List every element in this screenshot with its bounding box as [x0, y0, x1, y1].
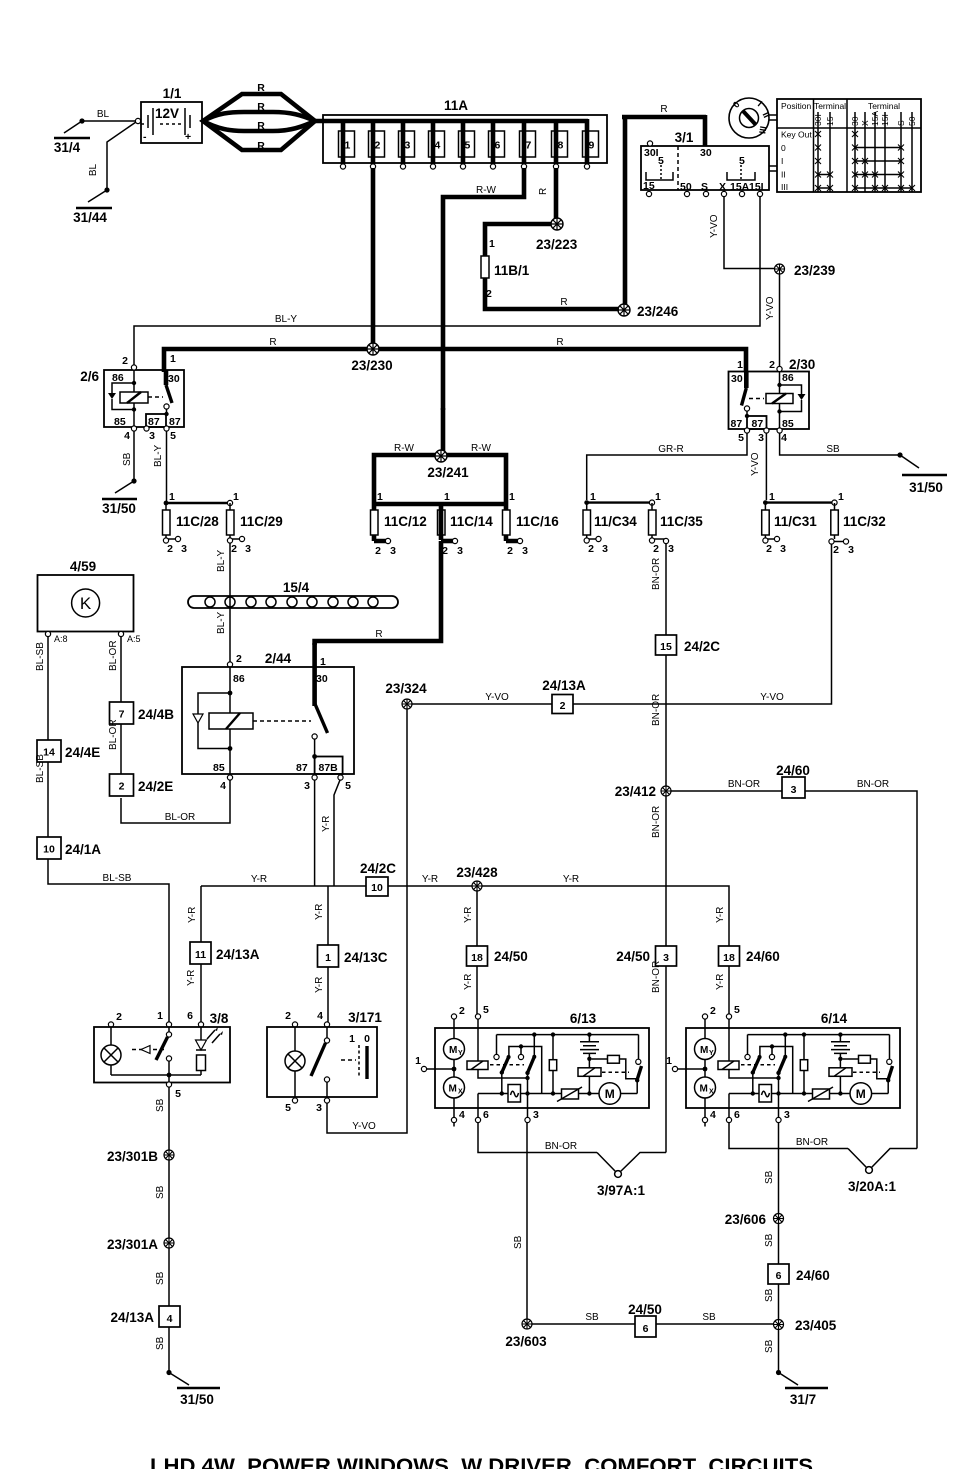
- wire GR-R 2/30 pin 5 to 11/C34: [587, 433, 747, 500]
- svg-text:2: 2: [167, 543, 173, 555]
- svg-text:24/13A: 24/13A: [110, 1310, 154, 1325]
- svg-text:R-W: R-W: [476, 185, 497, 196]
- wire Y-VO 23/324 down to 3/171: [327, 709, 407, 1133]
- svg-text:2/44: 2/44: [265, 651, 292, 666]
- wire Y-R box 1 to 3/171 pin 4: [327, 967, 329, 1022]
- svg-text:GR-R: GR-R: [658, 444, 684, 455]
- svg-text:Y-R: Y-R: [251, 874, 267, 885]
- svg-text:6: 6: [643, 1323, 649, 1335]
- svg-text:BL-SB: BL-SB: [35, 754, 46, 783]
- svg-text:2: 2: [375, 140, 381, 152]
- svg-text:31/50: 31/50: [102, 501, 136, 516]
- svg-text:R: R: [556, 337, 563, 348]
- svg-text:SB: SB: [585, 1312, 599, 1323]
- svg-text:Y-VO: Y-VO: [485, 692, 509, 703]
- svg-text:Y-VO: Y-VO: [709, 214, 720, 238]
- wire BN-OR 6/13 pin 6 to splice: [478, 1123, 597, 1153]
- wire Y-R 23/428 down to 6/13: [476, 891, 478, 946]
- svg-text:11C/32: 11C/32: [843, 514, 886, 529]
- svg-text:3: 3: [602, 543, 608, 555]
- svg-text:BL-Y: BL-Y: [153, 444, 164, 467]
- svg-text:24/2E: 24/2E: [138, 779, 173, 794]
- svg-text:1: 1: [737, 359, 743, 371]
- svg-text:11A: 11A: [444, 98, 468, 113]
- svg-text:0: 0: [781, 143, 786, 153]
- svg-text:10: 10: [371, 882, 383, 894]
- svg-text:Y-R: Y-R: [422, 874, 438, 885]
- svg-text:24/2C: 24/2C: [360, 861, 396, 876]
- svg-text:31/50: 31/50: [909, 480, 943, 495]
- svg-text:12V: 12V: [155, 106, 179, 121]
- junction 23/405: [774, 1320, 784, 1330]
- svg-text:1: 1: [838, 491, 844, 503]
- splice 3/97A:1: [597, 1153, 666, 1199]
- svg-text:1: 1: [769, 491, 775, 503]
- wire Y-R 2/44 pin 3 down: [314, 780, 316, 886]
- svg-text:6: 6: [187, 1010, 193, 1022]
- svg-text:18: 18: [723, 952, 735, 964]
- junction 23/603: [522, 1319, 532, 1329]
- svg-text:2: 2: [236, 653, 242, 665]
- svg-text:24/4B: 24/4B: [138, 707, 174, 722]
- wire R-W fuse 7 to 23/241 riser: [443, 168, 524, 410]
- svg-text:3: 3: [791, 784, 797, 796]
- svg-text:4: 4: [435, 140, 441, 152]
- svg-text:Y-VO: Y-VO: [750, 452, 761, 476]
- svg-text:BN-OR: BN-OR: [651, 806, 662, 838]
- svg-text:2/30: 2/30: [789, 357, 815, 372]
- svg-text:15I: 15I: [880, 114, 890, 126]
- wire R main bus to relays: [164, 349, 746, 372]
- svg-text:4: 4: [220, 780, 226, 792]
- fuse 1: [339, 119, 355, 169]
- svg-text:Y-R: Y-R: [463, 974, 474, 990]
- connector 11C/32: [829, 491, 886, 556]
- fuse box 11A: [315, 98, 607, 163]
- svg-text:A:8: A:8: [54, 634, 68, 644]
- svg-text:86: 86: [782, 372, 794, 384]
- svg-text:15: 15: [643, 180, 655, 192]
- svg-text:31/50: 31/50: [180, 1392, 214, 1407]
- svg-text:18: 18: [471, 952, 483, 964]
- svg-text:23/428: 23/428: [456, 865, 498, 880]
- svg-text:6: 6: [495, 140, 501, 152]
- svg-text:1: 1: [345, 140, 351, 152]
- svg-text:2: 2: [588, 543, 594, 555]
- svg-text:30: 30: [850, 116, 860, 126]
- svg-text:X: X: [860, 120, 870, 126]
- svg-text:R-W: R-W: [471, 443, 492, 454]
- svg-text:24/60: 24/60: [796, 1268, 830, 1283]
- wire SB 23/405 to ground: [778, 1330, 780, 1372]
- svg-text:23/223: 23/223: [536, 237, 578, 252]
- svg-text:85: 85: [114, 416, 126, 428]
- svg-text:23/301B: 23/301B: [107, 1149, 158, 1164]
- junction 23/230: [367, 343, 379, 355]
- svg-text:Y-R: Y-R: [186, 970, 197, 986]
- svg-text:23/241: 23/241: [427, 465, 469, 480]
- svg-text:15A: 15A: [870, 111, 880, 126]
- instrument 4/59: [38, 559, 141, 644]
- ground 31/50 bottom: [166, 1370, 220, 1407]
- svg-text:23/603: 23/603: [505, 1334, 547, 1349]
- svg-text:I: I: [781, 156, 783, 166]
- svg-text:Key Out: Key Out: [781, 130, 812, 140]
- wire BL-OR box 7 to box 2: [120, 724, 122, 774]
- connector box 2 24/2E: [110, 774, 174, 796]
- svg-text:24/50: 24/50: [616, 949, 650, 964]
- wire Y-VO 23/324 to 24/13A box 2: [412, 703, 552, 705]
- junction 23/428: [472, 881, 482, 891]
- connector box 14 24/4E: [37, 740, 100, 762]
- svg-text:III: III: [781, 182, 788, 192]
- svg-text:BL-OR: BL-OR: [165, 812, 196, 823]
- svg-text:7: 7: [526, 140, 532, 152]
- svg-text:Terminal: Terminal: [868, 101, 900, 111]
- ground 31/44: [73, 118, 140, 225]
- svg-text:23/324: 23/324: [385, 681, 427, 696]
- svg-text:23/230: 23/230: [351, 358, 392, 373]
- junction 23/301A: [164, 1238, 174, 1248]
- svg-text:23/606: 23/606: [725, 1212, 767, 1227]
- relay 2/44 coil: [229, 667, 231, 775]
- fuse 9: [583, 119, 599, 169]
- relay 2/44 switch: [315, 703, 328, 733]
- relay 2/30 switch: [744, 372, 749, 389]
- svg-text:BN-OR: BN-OR: [545, 1141, 577, 1152]
- wire Y-R box 18 to 6/13 pin 5: [476, 966, 478, 1014]
- svg-text:87: 87: [148, 416, 160, 428]
- svg-text:24/2C: 24/2C: [684, 639, 720, 654]
- svg-text:SB: SB: [155, 1098, 166, 1112]
- svg-text:BL-Y: BL-Y: [216, 549, 227, 572]
- svg-text:BL-Y: BL-Y: [275, 314, 298, 325]
- svg-text:2: 2: [560, 700, 566, 712]
- connector box 6 24/60: [768, 1264, 830, 1284]
- svg-text:85: 85: [782, 418, 794, 430]
- svg-text:2: 2: [507, 545, 513, 557]
- svg-text:R: R: [257, 82, 265, 94]
- svg-text:3: 3: [457, 545, 463, 557]
- relay 2/30 coil: [779, 372, 781, 429]
- svg-text:Y-R: Y-R: [715, 907, 726, 923]
- svg-text:R: R: [538, 188, 549, 195]
- connector box 1 24/13C: [318, 945, 388, 967]
- svg-text:3: 3: [848, 544, 854, 556]
- svg-text:2: 2: [833, 544, 839, 556]
- svg-text:11/C34: 11/C34: [594, 514, 637, 529]
- relay 2/44: [182, 651, 354, 792]
- svg-text:15A: 15A: [730, 181, 750, 193]
- svg-text:87: 87: [731, 418, 743, 430]
- svg-text:5: 5: [175, 1088, 181, 1100]
- svg-text:3/97A:1: 3/97A:1: [597, 1183, 646, 1198]
- ground 31/50 right: [897, 452, 947, 495]
- svg-text:Y-VO: Y-VO: [765, 296, 776, 320]
- svg-text:Y-R: Y-R: [187, 907, 198, 923]
- svg-text:SB: SB: [513, 1235, 524, 1249]
- 3/8 lamp: [110, 1027, 112, 1075]
- svg-text:24/13A: 24/13A: [216, 947, 260, 962]
- svg-text:23/412: 23/412: [615, 784, 656, 799]
- svg-text:50: 50: [907, 116, 917, 126]
- svg-text:R: R: [560, 297, 567, 308]
- svg-text:BL-SB: BL-SB: [35, 642, 46, 671]
- wire BL-Y 2/6 pin 5 to 11C/28: [166, 431, 168, 501]
- svg-text:1: 1: [157, 1010, 163, 1022]
- svg-text:K: K: [80, 594, 92, 613]
- svg-text:A:5: A:5: [127, 634, 141, 644]
- svg-text:Position: Position: [781, 101, 812, 111]
- svg-text:Y-R: Y-R: [321, 816, 332, 832]
- wire R fuse bus to ignition switch 3/1: [622, 115, 706, 307]
- svg-text:30: 30: [700, 147, 712, 159]
- svg-text:30: 30: [168, 373, 180, 385]
- svg-text:7: 7: [119, 709, 125, 721]
- connector 11C/14: [438, 491, 494, 557]
- svg-text:24/50: 24/50: [494, 949, 528, 964]
- svg-text:2: 2: [653, 543, 659, 555]
- svg-text:2: 2: [116, 1011, 122, 1023]
- svg-text:5: 5: [738, 432, 744, 444]
- connector box 3 24/60: [776, 763, 810, 798]
- wire Y-R to 24/13C box 1: [327, 886, 329, 945]
- svg-text:5: 5: [285, 1102, 291, 1114]
- junction 23/246: [618, 304, 630, 316]
- wire Y-VO 2/30 pin 3 to 11/C31: [765, 433, 767, 500]
- wire SB to box 4: [168, 1248, 170, 1306]
- wire Y-VO 23/239 to relay 2/30 pin 2: [779, 274, 781, 366]
- svg-text:85: 85: [213, 762, 225, 774]
- svg-text:10: 10: [43, 844, 55, 856]
- wire R fuse 2 down to bus: [371, 168, 376, 347]
- svg-text:1/1: 1/1: [163, 86, 182, 101]
- svg-text:31/7: 31/7: [790, 1392, 816, 1407]
- wire SB box 6 to 23/405: [778, 1284, 780, 1320]
- svg-text:BN-OR: BN-OR: [651, 694, 662, 726]
- fuse 6: [489, 119, 505, 169]
- svg-text:3: 3: [304, 780, 310, 792]
- svg-text:BN-OR: BN-OR: [651, 558, 662, 590]
- relay 2/44 diode: [198, 693, 230, 749]
- junction 23/412: [661, 786, 671, 796]
- wire BN-OR 6/14 pin 6 to splice: [729, 1123, 848, 1149]
- svg-text:3/20A:1: 3/20A:1: [848, 1179, 897, 1194]
- svg-text:R-W: R-W: [394, 443, 415, 454]
- wire R harness lens battery to fusebox: [203, 82, 315, 152]
- svg-text:86: 86: [112, 372, 124, 384]
- svg-text:11C/14: 11C/14: [450, 514, 493, 529]
- fuse 3: [399, 119, 415, 169]
- svg-text:1: 1: [655, 491, 661, 503]
- svg-text:24/4E: 24/4E: [65, 745, 100, 760]
- svg-text:R: R: [257, 120, 265, 132]
- relay 2/6 switch: [164, 370, 169, 385]
- svg-text:30: 30: [316, 673, 328, 685]
- wire SB 23/606 to box 6: [778, 1224, 780, 1265]
- wire SB 6/13 pin 3 to 23/603: [526, 1123, 528, 1320]
- ground 31/50 left: [102, 478, 137, 516]
- wire Y-R 24/2C to 23/428 to 6/14: [388, 886, 729, 946]
- svg-text:23/246: 23/246: [637, 304, 679, 319]
- svg-text:SB: SB: [764, 1170, 775, 1184]
- fuse 8: [552, 119, 568, 169]
- svg-text:Y-R: Y-R: [314, 977, 325, 993]
- battery 1/1: [141, 86, 202, 143]
- switch 3/171: [267, 1010, 382, 1114]
- fuse 5: [459, 119, 475, 169]
- relay 2/6 coil: [133, 370, 135, 426]
- svg-text:5: 5: [465, 140, 471, 152]
- wire BL-SB 4/59 A:8 down: [47, 637, 49, 741]
- connector box 10 24/1A: [37, 837, 101, 859]
- svg-text:2/6: 2/6: [80, 369, 99, 384]
- wire Y-VO box 2 to 11C/32: [573, 544, 832, 704]
- ring connector 15/4: [188, 580, 398, 608]
- connector box 6 24/50: [628, 1302, 662, 1337]
- wire Y-R horizontal to 24/2C: [201, 885, 366, 887]
- svg-text:30I: 30I: [813, 114, 823, 126]
- svg-text:15: 15: [660, 641, 672, 653]
- svg-text:9: 9: [589, 140, 595, 152]
- svg-text:-: -: [143, 131, 147, 143]
- wire BN-OR box 15 to 23/412: [665, 655, 667, 786]
- wire R 11C/14 to relay 2/44: [315, 541, 441, 645]
- wire Y-VO ignition X terminal to 23/239: [724, 196, 774, 269]
- svg-text:2: 2: [231, 543, 237, 555]
- svg-text:3/1: 3/1: [675, 130, 694, 145]
- junction 23/301B: [164, 1150, 174, 1160]
- svg-text:4: 4: [317, 1010, 323, 1022]
- svg-text:6/14: 6/14: [821, 1011, 848, 1026]
- junction 23/223: [551, 218, 563, 230]
- svg-text:BL-OR: BL-OR: [108, 719, 119, 750]
- svg-text:11/C31: 11/C31: [774, 514, 817, 529]
- wire BN-OR 23/412 to right: [671, 791, 917, 1149]
- svg-text:4: 4: [167, 1313, 173, 1325]
- svg-text:BL-OR: BL-OR: [108, 640, 119, 671]
- svg-text:1: 1: [509, 491, 515, 503]
- svg-text:SB: SB: [122, 452, 133, 466]
- svg-text:SB: SB: [702, 1312, 716, 1323]
- svg-text:2: 2: [769, 359, 775, 371]
- svg-text:SB: SB: [155, 1185, 166, 1199]
- wire SB to 23/301A: [168, 1160, 170, 1238]
- wire BN-OR box 3 to splice: [665, 966, 667, 1153]
- svg-text:3: 3: [758, 432, 764, 444]
- fuse 4: [429, 119, 445, 169]
- svg-text:87B: 87B: [319, 762, 339, 774]
- svg-text:2: 2: [285, 1010, 291, 1022]
- connector 11/C31: [762, 491, 835, 555]
- 3/8 switch contact: [168, 1027, 170, 1032]
- svg-text:2: 2: [486, 288, 492, 300]
- connector 11B/1: [481, 238, 530, 300]
- svg-text:23/405: 23/405: [795, 1318, 837, 1333]
- svg-text:31/44: 31/44: [73, 210, 107, 225]
- svg-text:Y-R: Y-R: [314, 904, 325, 920]
- wire BN-OR 23/412 down: [665, 796, 667, 946]
- svg-text:Y-R: Y-R: [463, 907, 474, 923]
- svg-text:11C/35: 11C/35: [660, 514, 703, 529]
- connector bar 11C/12 11C/14 11C/16: [372, 502, 508, 507]
- svg-text:3: 3: [390, 545, 396, 557]
- connector 11/C34: [583, 491, 652, 555]
- svg-text:3: 3: [522, 545, 528, 557]
- svg-text:11B/1: 11B/1: [494, 263, 530, 278]
- connector box 7 24/4B: [110, 702, 175, 724]
- wire Y-R 2/44 pin 5 down: [334, 780, 340, 886]
- svg-text:4: 4: [124, 430, 130, 442]
- svg-text:3: 3: [245, 543, 251, 555]
- svg-text:BN-OR: BN-OR: [728, 779, 760, 790]
- svg-text:Terminal: Terminal: [814, 101, 846, 111]
- svg-text:BL: BL: [97, 109, 110, 120]
- svg-text:3: 3: [668, 543, 674, 555]
- svg-text:15/4: 15/4: [283, 580, 310, 595]
- wire BL battery to ground: [82, 120, 136, 122]
- svg-text:R: R: [257, 101, 265, 113]
- svg-text:11C/12: 11C/12: [384, 514, 427, 529]
- svg-text:11C/28: 11C/28: [176, 514, 219, 529]
- junction 23/239: [775, 264, 785, 274]
- junction 23/324: [402, 699, 412, 709]
- svg-text:S: S: [896, 120, 906, 126]
- svg-text:3: 3: [663, 952, 669, 964]
- svg-text:R: R: [375, 629, 382, 640]
- wire SB 2/6 pin 4 to ground: [133, 431, 135, 480]
- svg-text:0: 0: [364, 1033, 370, 1045]
- connector 11C/12: [371, 491, 427, 557]
- svg-text:5: 5: [345, 780, 351, 792]
- svg-text:6: 6: [776, 1270, 782, 1282]
- svg-text:SB: SB: [764, 1288, 775, 1302]
- ignition key symbol: [729, 98, 777, 138]
- svg-text:87: 87: [752, 418, 764, 430]
- junction 23/241: [441, 408, 446, 454]
- svg-text:1: 1: [377, 491, 383, 503]
- wire SB box 4 to ground: [168, 1327, 170, 1371]
- wire Y-R box 11 to 3/8 pin 6: [200, 964, 202, 1022]
- svg-text:2: 2: [122, 355, 128, 367]
- svg-text:R: R: [257, 140, 265, 152]
- svg-text:1: 1: [170, 353, 176, 365]
- connector box 3 24/50: [616, 946, 676, 966]
- svg-text:24/13A: 24/13A: [542, 678, 586, 693]
- splice 3/20A:1: [848, 1149, 917, 1195]
- svg-text:3: 3: [149, 430, 155, 442]
- relay 2/30 diode: [780, 385, 802, 412]
- ignition switch 3/1: [641, 130, 777, 197]
- wire R fuse 8 down to 23/223: [554, 168, 559, 221]
- svg-text:1: 1: [325, 952, 331, 964]
- svg-text:BL-Y: BL-Y: [216, 611, 227, 634]
- svg-text:Y-VO: Y-VO: [352, 1121, 376, 1132]
- wire SB 6/14 pin 3 to 23/606: [778, 1123, 780, 1214]
- relay 2/6: [80, 353, 184, 442]
- relay 2/30: [729, 357, 816, 444]
- connector 11C/16: [503, 491, 560, 557]
- svg-text:4: 4: [781, 432, 787, 444]
- svg-text:11: 11: [195, 949, 206, 961]
- svg-text:BN-OR: BN-OR: [796, 1137, 828, 1148]
- connector 11C/29: [227, 491, 283, 555]
- svg-text:II: II: [781, 170, 786, 180]
- svg-text:1: 1: [590, 491, 596, 503]
- wire BL-OR 4/59 A:5 down: [120, 637, 122, 703]
- svg-text:24/50: 24/50: [628, 1302, 662, 1317]
- svg-text:3: 3: [316, 1102, 322, 1114]
